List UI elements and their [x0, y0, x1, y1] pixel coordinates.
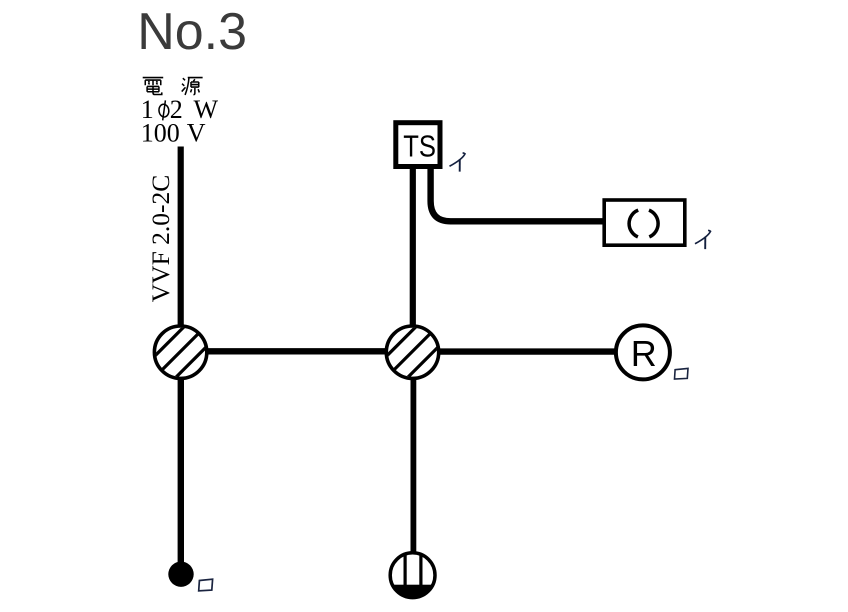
- wire: center junction to R: [436, 348, 615, 354]
- switch ロ (filled dot): [168, 562, 193, 587]
- svg-text:100V: 100V: [141, 119, 206, 148]
- wire: junction to junction horizontal: [205, 348, 388, 354]
- wire: center junction down to outlet: [410, 375, 416, 556]
- wire: TS right lead curving to lamp box: [431, 166, 603, 221]
- label イ (near TS): [450, 153, 466, 172]
- svg-text:TS: TS: [403, 129, 436, 163]
- lamp box ( ): [604, 200, 685, 245]
- junction box left: [148, 318, 214, 384]
- label ロ (near switch): [199, 579, 213, 591]
- svg-text:R: R: [631, 333, 657, 374]
- label 電源 (power source kanji): [143, 78, 203, 95]
- receptacle R circle: [616, 325, 670, 379]
- outlet symbol: [388, 551, 438, 601]
- phi symbol: [158, 100, 169, 120]
- label ロ (near R): [675, 368, 689, 379]
- timer switch TS box: [396, 123, 440, 167]
- junction box center: [380, 318, 446, 384]
- svg-text:VVF 2.0-2C: VVF 2.0-2C: [146, 175, 175, 303]
- label イ (near lamp box): [695, 230, 711, 249]
- wire: source feed vertical: [178, 147, 184, 331]
- wire: center junction up to TS: [410, 166, 416, 330]
- svg-text:No.3: No.3: [137, 3, 247, 61]
- wire: left junction down to switch: [178, 375, 184, 565]
